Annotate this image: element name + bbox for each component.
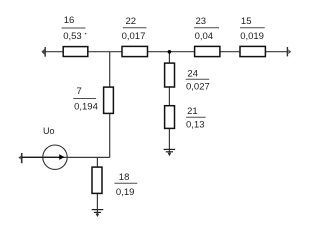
svg-text:18: 18 xyxy=(119,172,130,183)
svg-text:23: 23 xyxy=(196,16,207,27)
svg-text:0,13: 0,13 xyxy=(186,119,205,130)
svg-text:0,53: 0,53 xyxy=(63,31,81,42)
svg-text:7: 7 xyxy=(77,86,82,97)
svg-text:0,019: 0,019 xyxy=(240,31,264,42)
svg-text:0,04: 0,04 xyxy=(195,31,214,42)
svg-text:24: 24 xyxy=(187,68,198,79)
svg-text:21: 21 xyxy=(187,106,198,117)
svg-text:0,19: 0,19 xyxy=(116,187,134,198)
svg-text:16: 16 xyxy=(64,15,75,26)
svg-text:Uo: Uo xyxy=(43,126,55,136)
svg-text:0,017: 0,017 xyxy=(122,31,146,42)
svg-text:0,027: 0,027 xyxy=(186,81,210,92)
svg-text:0,194: 0,194 xyxy=(74,102,98,113)
svg-text:15: 15 xyxy=(241,16,252,27)
svg-text:22: 22 xyxy=(126,16,137,27)
